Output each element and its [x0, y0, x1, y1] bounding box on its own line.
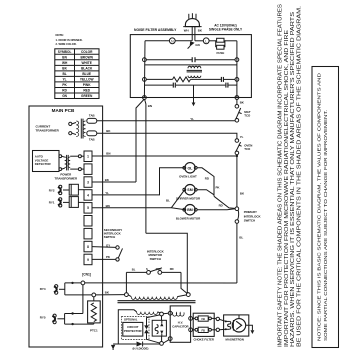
fuse F1	[209, 38, 237, 55]
wire RY5 to PTC bottom	[65, 323, 94, 325]
svg-text:BLOWER MOTOR: BLOWER MOTOR	[176, 216, 201, 220]
terminal N	[169, 38, 175, 44]
svg-text:WH: WH	[62, 61, 68, 65]
svg-text:TAB: TAB	[89, 113, 95, 117]
wire pin4 YL to oven light	[92, 168, 184, 195]
filter right bus wire	[236, 41, 238, 98]
svg-text:RD: RD	[62, 89, 67, 93]
svg-text:RD: RD	[205, 177, 209, 181]
AC rating label	[209, 23, 243, 31]
primary interlock switch S1	[235, 207, 261, 223]
wire capacitor to choke bottom	[193, 329, 196, 331]
thermal cutout OVEN TCO	[235, 139, 252, 155]
thermal cutout MGT TCO	[235, 105, 251, 123]
svg-text:FUSE: FUSE	[217, 51, 225, 55]
wire BK filter drop	[237, 99, 245, 104]
svg-text:BK: BK	[62, 66, 67, 70]
svg-text:HAZARDS. WHEN SERVICING IT IS: HAZARDS. WHEN SERVICING IT IS ESSENTIAL …	[290, 11, 296, 347]
svg-text:PTC1: PTC1	[90, 329, 98, 333]
svg-text:YELLOW: YELLOW	[80, 77, 94, 81]
oven light OL	[179, 163, 197, 179]
svg-text:GN: GN	[62, 94, 67, 98]
svg-text:1. DOOR IS OPENED.: 1. DOOR IS OPENED.	[56, 38, 83, 42]
wire RY4 to BL bus	[65, 281, 237, 285]
svg-text:PRIMARY: PRIMARY	[244, 210, 257, 214]
svg-text:GREEN: GREEN	[81, 94, 93, 98]
svg-text:BLUE: BLUE	[82, 72, 91, 76]
svg-text:IMPORTANT FOR PROTECTION FROM: IMPORTANT FOR PROTECTION FROM MICROWAVE …	[284, 29, 290, 347]
wire N row	[145, 40, 203, 42]
interlock monitor switch S3	[126, 250, 181, 275]
svg-text:TCO: TCO	[244, 147, 251, 151]
connector CN1 pin strip	[84, 151, 92, 265]
svg-text:BN: BN	[106, 204, 110, 208]
svg-text:STIRRER MOTOR: STIRRER MOTOR	[176, 196, 201, 200]
svg-text:OVEN LIGHT: OVEN LIGHT	[179, 174, 197, 178]
svg-text:WH: WH	[184, 28, 189, 32]
capacitor C2 C3 row	[144, 83, 237, 88]
wire BK RY4 to transformer	[65, 291, 125, 297]
varistor bypass wire	[147, 315, 161, 343]
wire pin3 BK	[92, 178, 136, 182]
wire RY5 to relay bus	[65, 312, 83, 314]
svg-text:TCO: TCO	[244, 113, 251, 117]
svg-text:L: L	[205, 39, 207, 43]
wire right bus BK	[237, 155, 245, 207]
svg-text:BN: BN	[62, 55, 67, 59]
main PCB board outline	[29, 106, 103, 347]
wire relay riser	[82, 285, 84, 314]
svg-text:2. WIRE COLOR.: 2. WIRE COLOR.	[56, 42, 77, 46]
svg-text:SYMBOL: SYMBOL	[58, 50, 72, 54]
HV diode D1	[133, 342, 160, 350]
stirrer motor SM	[176, 185, 201, 201]
wire lower pair row	[144, 64, 237, 66]
resistor R1 row	[143, 77, 239, 82]
svg-text:BE USED FOR THE CRITICAL COMPO: BE USED FOR THE CRITICAL COMPONENTS IN T…	[296, 6, 302, 347]
svg-text:8: 8	[87, 245, 89, 249]
ground magnetron	[246, 325, 255, 334]
svg-text:TRANSFORMER: TRANSFORMER	[55, 176, 78, 180]
wire capacitor to choke top	[193, 317, 196, 319]
magnetron MG1	[224, 315, 249, 342]
HV fuse terminal bottom	[160, 342, 164, 346]
HV transformer filament winding	[118, 310, 160, 344]
wire choke to magnetron top	[211, 317, 226, 322]
svg-text:RD: RD	[219, 203, 223, 207]
svg-text:PROTECTOR: PROTECTOR	[124, 329, 142, 333]
svg-text:TAB: TAB	[89, 137, 95, 141]
AC plug P1	[183, 13, 201, 26]
svg-text:1: 1	[87, 155, 89, 159]
svg-text:RY5: RY5	[40, 316, 46, 320]
svg-text:PINK: PINK	[83, 83, 91, 87]
svg-text:CAPACITOR: CAPACITOR	[172, 324, 188, 328]
svg-text:RD: RD	[170, 267, 174, 271]
wire monitor switch left leg	[125, 272, 127, 292]
svg-text:YL: YL	[240, 135, 244, 139]
wire choke to magnetron bottom	[211, 328, 226, 331]
HV capacitor C4	[168, 306, 192, 342]
svg-text:MAGNETRON: MAGNETRON	[226, 338, 244, 342]
svg-text:FB: FB	[201, 317, 205, 321]
power transformer T1	[55, 155, 84, 181]
svg-text:RY4: RY4	[40, 287, 46, 291]
svg-text:FB: FB	[201, 329, 205, 333]
svg-text:YL: YL	[105, 191, 109, 195]
svg-text:BM: BM	[187, 208, 193, 212]
relay RY1	[49, 197, 84, 208]
wire color table	[55, 49, 99, 99]
current transformer T2	[36, 119, 86, 139]
svg-text:BL: BL	[166, 198, 170, 202]
svg-text:BROWN: BROWN	[80, 55, 93, 59]
filter left bus wire	[143, 41, 146, 98]
svg-text:4: 4	[87, 193, 89, 197]
svg-text:GN: GN	[195, 43, 199, 47]
relay RY2	[49, 184, 84, 195]
HV transformer core	[118, 301, 196, 303]
svg-text:SWITCH: SWITCH	[150, 257, 161, 261]
svg-text:RY2: RY2	[49, 188, 55, 192]
connector TAB 2	[87, 131, 97, 141]
noise filter assembly box	[130, 28, 251, 98]
svg-text:CHOKE FILTER: CHOKE FILTER	[193, 338, 213, 342]
connector TAB 1	[87, 113, 97, 123]
notice vertical text	[317, 72, 329, 341]
svg-text:SWITCH: SWITCH	[104, 235, 115, 239]
svg-text:WHITE: WHITE	[82, 61, 92, 65]
svg-text:3: 3	[87, 180, 89, 184]
svg-text:TRANSFORMER: TRANSFORMER	[36, 129, 60, 133]
node junction OVEN TCO bottom	[236, 155, 238, 157]
svg-text:9: 9	[87, 258, 89, 262]
relay RY5 contacts	[40, 314, 65, 325]
secondary interlock switch S2	[92, 228, 123, 261]
note text	[56, 33, 83, 46]
wire pin5 BN to motors	[92, 190, 185, 210]
terminal L	[203, 38, 209, 44]
svg-text:BLACK: BLACK	[81, 66, 93, 70]
svg-text:NOTICE: SINCE THIS IS BASIC SC: NOTICE: SINCE THIS IS BASIC SCHEMATIC DI…	[317, 72, 323, 341]
svg-text:BN: BN	[106, 152, 110, 156]
svg-text:SINGLE PHASE ONLY: SINGLE PHASE ONLY	[209, 28, 243, 32]
wire monitor switch right leg	[181, 272, 187, 293]
notice box	[312, 67, 339, 348]
svg-text:RY1: RY1	[49, 201, 55, 205]
resistor PTC1	[88, 297, 101, 333]
svg-text:SWITCH: SWITCH	[244, 219, 255, 223]
safety note vertical text	[278, 3, 303, 347]
svg-text:[CN1]: [CN1]	[82, 273, 91, 277]
svg-text:BL: BL	[132, 267, 136, 271]
svg-text:SM: SM	[187, 188, 192, 192]
svg-text:NOISE FILTER ASSEMBLY: NOISE FILTER ASSEMBLY	[134, 28, 177, 32]
svg-text:RED: RED	[83, 89, 90, 93]
wire BN filter drop	[136, 99, 152, 233]
filter ground	[192, 85, 196, 106]
capacitor C1 row	[143, 57, 239, 62]
power cord wires WH / BK	[184, 27, 203, 41]
relay RY4 contacts	[40, 283, 65, 295]
HV fuse terminal top	[160, 312, 164, 316]
svg-text:BN: BN	[148, 104, 152, 108]
filter output terminal BN	[143, 96, 147, 100]
optional circuit protector dashed box	[122, 317, 150, 340]
auto voltage detector U1	[33, 151, 60, 172]
svg-text:BL: BL	[239, 235, 243, 239]
circuit protector CP1	[123, 322, 143, 336]
svg-text:DETECTOR: DETECTOR	[35, 162, 52, 166]
choke filter FL1	[193, 313, 214, 341]
wire C pin1 BN feed	[92, 152, 237, 156]
svg-text:OL: OL	[188, 166, 194, 170]
svg-text:MAIN PCB: MAIN PCB	[52, 108, 75, 113]
wire BL primary switch to RY4	[237, 223, 244, 283]
varistor D2	[144, 325, 149, 333]
ground lead GN	[188, 41, 200, 48]
HV fuse F2	[152, 316, 166, 342]
svg-text:INTERLOCK: INTERLOCK	[244, 214, 262, 218]
wire RD oven light return	[197, 168, 214, 197]
wire B TAB to OVEN TCO	[97, 129, 244, 139]
wire to capacitor low side	[163, 340, 168, 343]
wire fuse to capacitor	[163, 312, 168, 315]
svg-text:SOME PARTIAL CONNECTIONS ARE S: SOME PARTIAL CONNECTIONS ARE SUBJECT TO …	[323, 110, 329, 341]
svg-text:IMPORTANT SAFETY NOTE: THE SHA: IMPORTANT SAFETY NOTE: THE SHADED AREAS …	[278, 3, 284, 347]
filter output terminal BK	[235, 96, 239, 100]
wire HV bottom rail	[113, 343, 136, 345]
svg-text:COLOR: COLOR	[81, 50, 93, 54]
svg-text:BL: BL	[62, 72, 66, 76]
svg-text:5: 5	[87, 206, 89, 210]
ground secondary	[111, 345, 115, 350]
choke coil L1	[187, 66, 202, 77]
wire A TAB to MGT TCO	[97, 117, 235, 121]
wire RD blower return	[197, 196, 235, 209]
svg-text:PK: PK	[62, 83, 67, 87]
wire PK stirrer return	[197, 185, 220, 194]
HV transformer T3 primary	[125, 293, 191, 300]
blower motor BM	[176, 205, 201, 221]
svg-text:NOTE:: NOTE:	[56, 33, 65, 37]
svg-text:OPTIONAL: OPTIONAL	[124, 317, 138, 321]
svg-text:YL: YL	[63, 77, 67, 81]
wire feed to HV transformer	[146, 233, 188, 292]
